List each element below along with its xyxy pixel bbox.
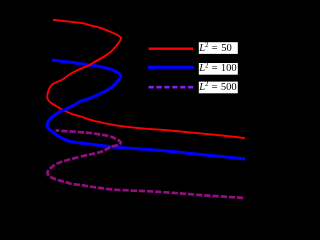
svg-text:2: 2 [205,61,209,69]
svg-text:=: = [212,43,218,54]
svg-text:50: 50 [221,43,232,54]
svg-text:2: 2 [205,41,209,49]
svg-text:100: 100 [221,63,237,74]
svg-text:=: = [212,82,218,93]
svg-text:500: 500 [221,82,237,93]
svg-text:2: 2 [205,80,209,88]
svg-text:=: = [212,63,218,74]
